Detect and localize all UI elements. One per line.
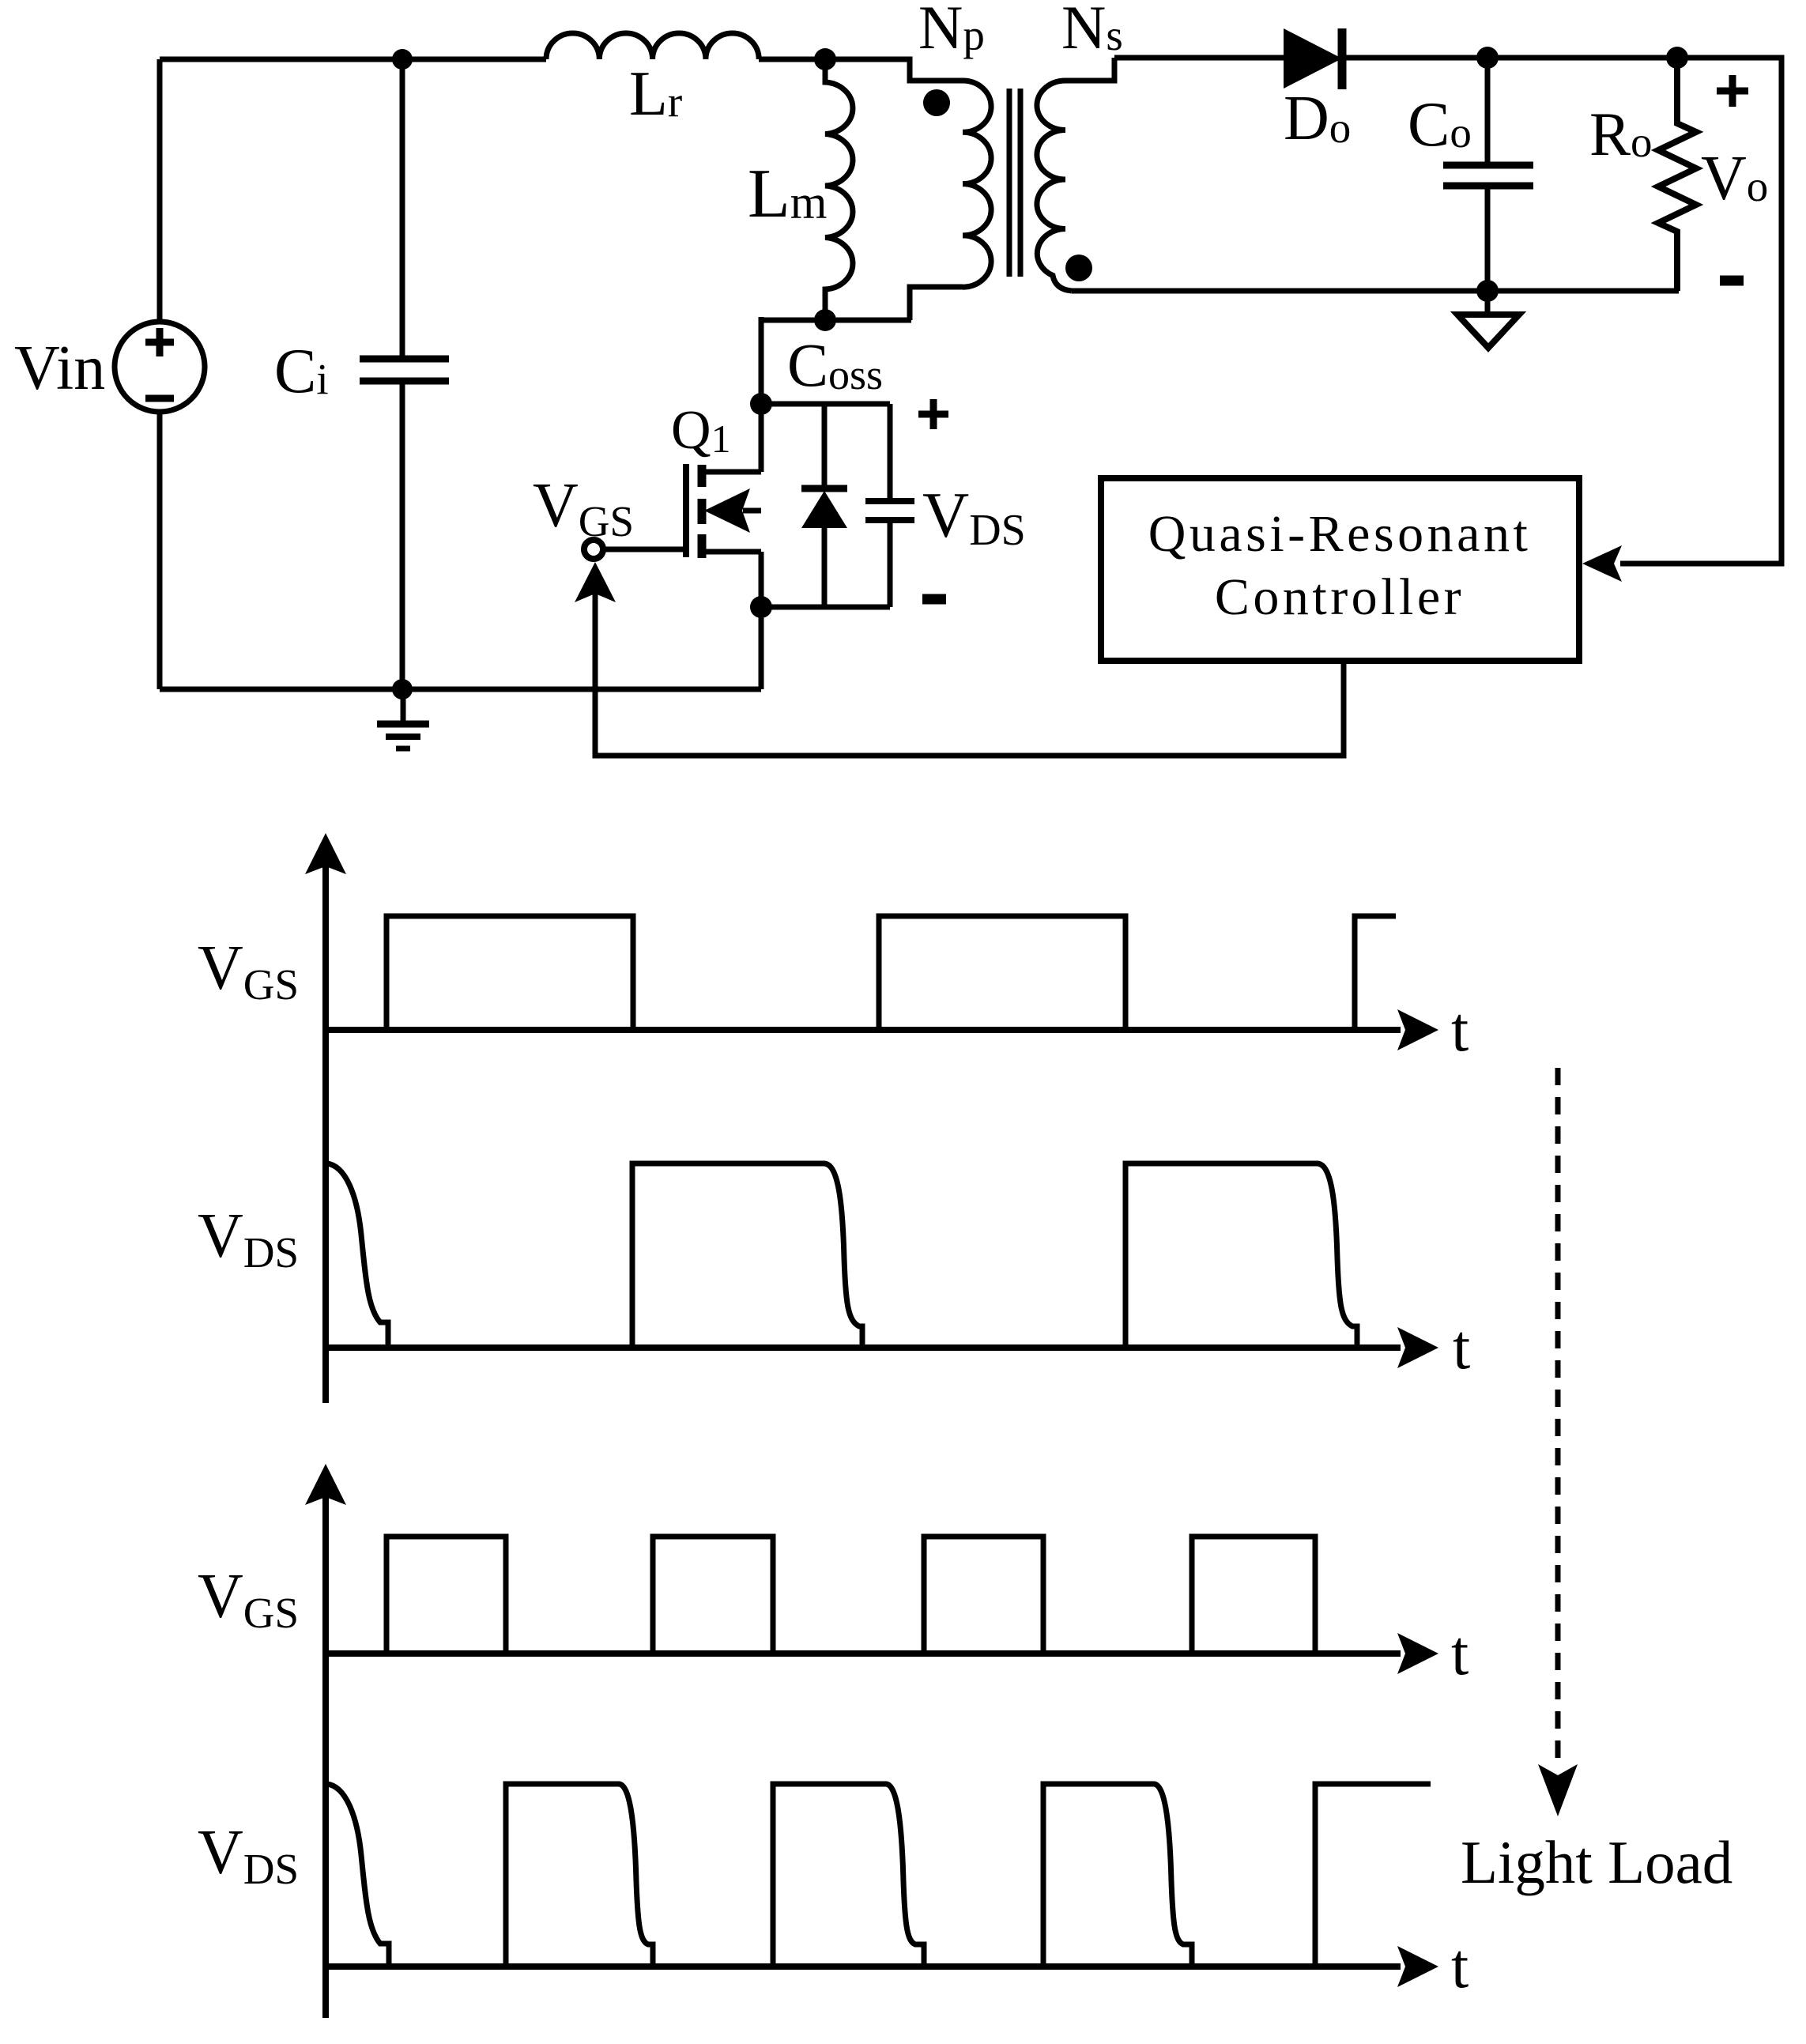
transformer secondary winding Ns with top lead <box>1037 58 1114 291</box>
svg-text:Quasi-Resonant: Quasi-Resonant <box>1148 505 1532 563</box>
wire drain vertical <box>759 317 764 472</box>
capacitor Ci plates <box>360 359 449 381</box>
resistor Ro <box>1658 58 1696 291</box>
wire Vin bottom to bottom rail <box>157 412 163 689</box>
junction dot node A <box>814 48 836 70</box>
junction dot Coss top <box>750 393 772 415</box>
junction dot Lm bottom node <box>814 309 836 331</box>
wire Coss top rail <box>761 402 890 407</box>
VGS waveform 1 pulse 2 <box>879 916 1125 1030</box>
voltage source Vin <box>115 322 205 412</box>
waveform panel 2 vertical axis <box>322 1473 329 2018</box>
svg-text:t: t <box>1451 1619 1469 1688</box>
svg-text:VDS: VDS <box>198 1818 299 1893</box>
VDS waveform 2 pulse 2 <box>506 1784 653 1967</box>
dashed arrow load transition <box>1555 1068 1561 1764</box>
wire source vertical <box>759 552 764 689</box>
VDS waveform 1 pulse 2 <box>632 1163 862 1348</box>
transistor Q1 body arrow <box>743 508 761 514</box>
gate terminal circle VGS <box>584 540 603 559</box>
transformer core <box>1009 89 1020 277</box>
svg-text:Coss: Coss <box>787 330 883 399</box>
VGS waveform 1 partial pulse <box>1355 916 1396 1030</box>
diode Do cathode bar <box>1338 28 1347 89</box>
svg-text:Do: Do <box>1284 84 1351 153</box>
svg-text:Ci: Ci <box>274 337 329 406</box>
junction dot Ro top <box>1666 47 1688 69</box>
minus sign VDS <box>922 594 946 605</box>
VGS waveform 2 pulse 2 <box>653 1537 773 1654</box>
waveform panel 2 VDS time axis <box>326 1963 1401 1970</box>
svg-text:VDS: VDS <box>922 479 1026 555</box>
junction dot Ci top <box>392 49 413 70</box>
svg-text:VGS: VGS <box>198 1562 299 1637</box>
svg-text:VGS: VGS <box>198 933 299 1009</box>
wire gate terminal to gate bar <box>605 547 686 552</box>
plus sign output <box>1717 75 1748 107</box>
controller box <box>1101 478 1579 661</box>
capacitor Ci vertical leads <box>400 59 405 689</box>
wire controller bottom feedback to gate <box>595 591 1344 756</box>
Vin minus sign <box>145 395 174 402</box>
inductor Lm <box>825 59 853 320</box>
VDS waveform 2 partial pulse <box>1315 1784 1431 1967</box>
wire Np bottom lead <box>910 287 963 320</box>
gate drive arrowhead <box>575 562 616 602</box>
VDS waveform 2 initial fall <box>326 1784 389 1967</box>
wire node A to Np top lead <box>825 59 963 81</box>
transistor Q1 gate bar <box>683 464 689 557</box>
svg-text:Controller: Controller <box>1215 568 1465 626</box>
svg-text:t: t <box>1453 1313 1470 1382</box>
svg-text:Ro: Ro <box>1589 100 1653 168</box>
svg-text:Q1: Q1 <box>671 400 731 461</box>
VGS waveform 2 pulse 3 <box>924 1537 1043 1654</box>
junction dot Coss bottom <box>750 596 772 618</box>
Vin plus sign <box>145 328 174 356</box>
inductor Lr <box>546 33 759 59</box>
wire diode cathode to right corner and down to controller arrow <box>1342 58 1781 564</box>
body diode vertical leads <box>822 404 828 607</box>
waveform panel 2 VGS time axis <box>326 1650 1401 1657</box>
svg-text:Lm: Lm <box>748 156 827 232</box>
svg-text:Ns: Ns <box>1061 0 1123 62</box>
svg-text:VDS: VDS <box>198 1201 299 1277</box>
svg-text:Light Load: Light Load <box>1461 1828 1732 1896</box>
ground symbol input <box>377 689 429 749</box>
waveform panel 1 vertical axis <box>322 843 329 1403</box>
VGS waveform 2 pulse 1 <box>386 1537 506 1654</box>
wire secondary bottom rail <box>1072 288 1679 294</box>
transistor Q1 source lead <box>704 549 761 555</box>
VGS waveform 1 pulse 1 <box>386 916 633 1030</box>
capacitor Co plates <box>1443 165 1533 186</box>
winding polarity dot Np <box>923 89 950 116</box>
wire secondary top rail to diode <box>1114 55 1284 61</box>
svg-text:Np: Np <box>918 0 985 62</box>
winding polarity dot Ns <box>1065 255 1092 281</box>
wire Vin top to top rail <box>157 59 163 322</box>
VDS waveform 1 pulse 3 <box>1125 1163 1357 1348</box>
junction dot Ci bottom <box>392 679 413 700</box>
wire top rail left segment <box>160 57 546 62</box>
body diode triangle <box>801 491 847 528</box>
transistor Q1 drain lead <box>704 470 761 475</box>
transformer primary winding Np <box>963 81 991 287</box>
diode Do triangle <box>1284 28 1342 89</box>
controller feedback arrowhead <box>1582 545 1622 582</box>
capacitor Co leads <box>1485 58 1491 291</box>
VDS waveform 1 initial fall <box>326 1163 388 1348</box>
wire bottom rail <box>160 687 761 692</box>
svg-text:Vo: Vo <box>1701 144 1768 213</box>
VGS waveform 2 pulse 4 <box>1192 1537 1315 1654</box>
VDS waveform 2 pulse 3 <box>773 1784 924 1967</box>
junction dot output bottom <box>1476 280 1499 302</box>
svg-text:t: t <box>1451 1932 1469 2001</box>
plus sign VDS <box>918 399 948 429</box>
svg-text:Vin: Vin <box>14 334 105 403</box>
svg-text:t: t <box>1451 995 1469 1065</box>
minus sign output <box>1720 276 1744 286</box>
svg-text:VGS: VGS <box>533 471 634 545</box>
wire Coss bottom rail <box>761 605 890 610</box>
ground symbol output (open triangle) <box>1485 291 1491 315</box>
svg-text:Co: Co <box>1408 90 1472 160</box>
junction dot output top (Co) <box>1476 47 1499 69</box>
body diode cathode bar <box>801 485 847 492</box>
svg-text:Lr: Lr <box>629 59 682 129</box>
waveform panel 1 VDS time axis <box>326 1344 1401 1351</box>
transistor Q1 channel dashes <box>698 465 707 558</box>
waveform panel 1 VGS time axis <box>326 1027 1401 1033</box>
VDS waveform 2 pulse 4 <box>1043 1784 1192 1967</box>
wire primary bottom rail <box>760 318 911 323</box>
capacitor Coss leads <box>888 404 893 607</box>
capacitor Coss plates <box>865 501 914 520</box>
wire Lr to node A <box>759 57 825 62</box>
